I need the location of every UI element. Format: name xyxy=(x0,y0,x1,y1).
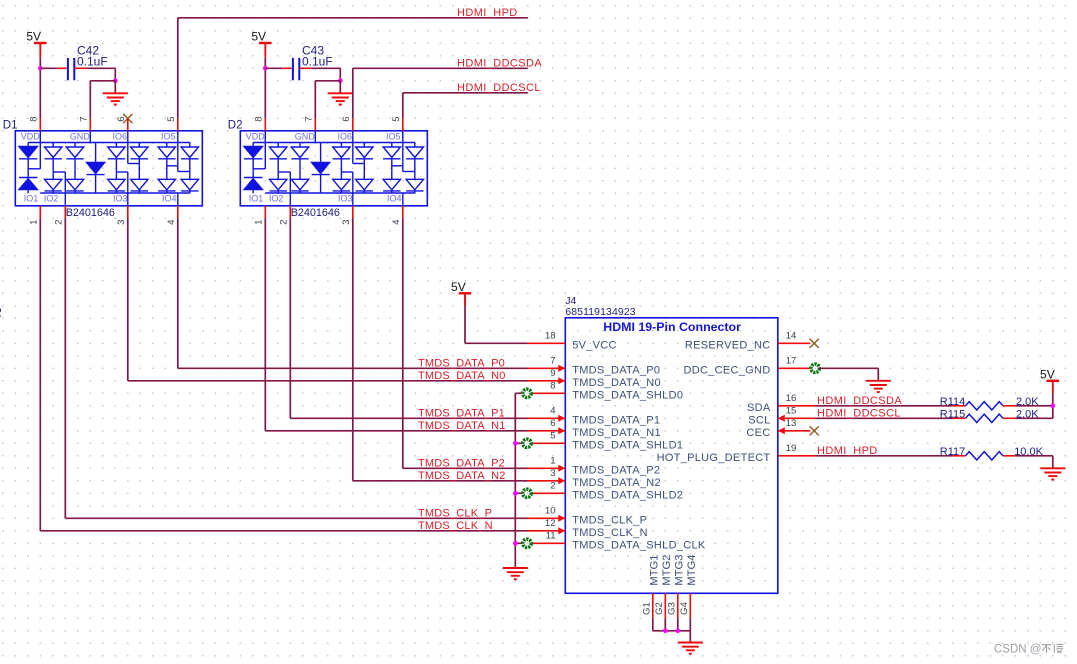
junction C43/D2 pin7/ground xyxy=(338,79,343,84)
J4 pin 12 (TMDS_CLK_N) xyxy=(528,530,566,532)
J4 pin 6 (TMDS_DATA_N1) xyxy=(528,430,566,432)
svg-text:TMDS_CLK_P: TMDS_CLK_P xyxy=(572,515,647,527)
svg-text:9: 9 xyxy=(550,368,555,379)
wire TMDS_DATA_P0 xyxy=(177,218,179,368)
svg-text:14: 14 xyxy=(786,331,797,342)
J4 pin 7 (TMDS_DATA_P0) xyxy=(528,367,566,369)
wire D1 pin 7 to junction xyxy=(90,80,115,82)
svg-text:2: 2 xyxy=(279,220,290,225)
wire TMDS_CLK_N xyxy=(39,218,41,531)
wire MTG bus xyxy=(653,630,691,632)
svg-text:5: 5 xyxy=(550,431,555,442)
wire R114 to 5V junction xyxy=(1015,405,1053,407)
svg-text:4: 4 xyxy=(550,406,556,417)
D1 pin 5 xyxy=(177,118,179,131)
svg-text:5V: 5V xyxy=(1040,367,1055,381)
svg-text:16: 16 xyxy=(786,393,797,404)
svg-text:8: 8 xyxy=(254,116,265,121)
no-ERC ring pin 5 xyxy=(523,439,531,447)
svg-text:1: 1 xyxy=(254,220,265,225)
wire TMDS_CLK_P xyxy=(64,218,66,518)
no-connect X on pin 13 xyxy=(810,426,819,435)
svg-text:HDMI_DDCSDA: HDMI_DDCSDA xyxy=(817,395,902,407)
J4 pin 4 (TMDS_DATA_P1) xyxy=(528,417,566,419)
svg-text:B2401646: B2401646 xyxy=(66,207,115,219)
wire TMDS_DATA_N0 xyxy=(127,218,129,380)
D2 pin 2 xyxy=(289,206,291,219)
svg-text:0.1uF: 0.1uF xyxy=(77,54,108,68)
J4 pin 9 (TMDS_DATA_N0) xyxy=(528,380,566,382)
resistor R114 body xyxy=(966,402,1004,410)
wire 5V to D2 pin 8 xyxy=(264,43,266,57)
svg-text:HDMI 19-Pin Connector: HDMI 19-Pin Connector xyxy=(603,320,741,334)
svg-text:IO1: IO1 xyxy=(24,194,39,204)
svg-text:IO3: IO3 xyxy=(113,194,128,204)
svg-text:IO4: IO4 xyxy=(387,194,402,204)
svg-text:D2: D2 xyxy=(228,120,243,132)
resistor R115 body xyxy=(966,414,1004,422)
svg-text:TMDS_DATA_N2: TMDS_DATA_N2 xyxy=(418,470,506,482)
svg-text:6: 6 xyxy=(550,418,555,429)
svg-text:8: 8 xyxy=(550,381,555,392)
svg-text:17: 17 xyxy=(786,356,797,367)
J4 pin 13 (CEC) xyxy=(778,427,785,434)
svg-text:TMDS_DATA_P2: TMDS_DATA_P2 xyxy=(418,458,505,470)
svg-text:685119134923: 685119134923 xyxy=(565,307,635,318)
junction MTG2 xyxy=(663,629,668,634)
J4 pin 10 (TMDS_CLK_P) xyxy=(528,517,566,519)
ground (DDC_CEC_GND) xyxy=(866,381,891,392)
J4 pin 15 (SCL) xyxy=(778,415,785,422)
capacitor C42 xyxy=(68,58,74,80)
svg-text:MTG2: MTG2 xyxy=(661,555,673,586)
J4 pin 5 (TMDS_DATA_SHLD1) xyxy=(531,442,565,444)
svg-text:R114: R114 xyxy=(940,396,965,408)
svg-text:2: 2 xyxy=(550,481,555,492)
svg-text:0.1uF: 0.1uF xyxy=(302,54,333,68)
no-ERC ring pin 17 xyxy=(811,364,819,372)
svg-text:15: 15 xyxy=(786,406,797,417)
svg-text:MTG4: MTG4 xyxy=(686,555,698,586)
svg-text:R115: R115 xyxy=(940,409,965,421)
svg-text:HDMI_DDCSCL: HDMI_DDCSCL xyxy=(457,82,541,94)
wire HDMI_DDCSDA to R114 xyxy=(815,405,953,407)
wire C43 left xyxy=(265,67,282,69)
svg-text:VDD: VDD xyxy=(21,131,41,141)
J4 pin 8 (TMDS_DATA_SHLD0) xyxy=(531,392,565,394)
svg-text:TMDS_DATA_P2: TMDS_DATA_P2 xyxy=(572,465,660,477)
D1 pin 4 xyxy=(177,206,179,219)
svg-text:IO6: IO6 xyxy=(112,131,127,141)
wire R117 to ground xyxy=(1015,455,1053,457)
J4 pin 3 (TMDS_DATA_N2) xyxy=(528,480,566,482)
svg-text:7: 7 xyxy=(304,116,315,121)
svg-text:SDA: SDA xyxy=(747,402,771,414)
connector J4 box xyxy=(565,318,778,594)
J4 pin 17 (DDC_CEC_GND) xyxy=(778,367,811,369)
svg-text:IO4: IO4 xyxy=(162,194,177,204)
D2 pin 7 xyxy=(314,118,316,131)
svg-text:G3: G3 xyxy=(666,602,677,615)
D1 pin 8 xyxy=(39,118,41,131)
junction C42/D1 pin7/ground xyxy=(113,79,118,84)
svg-text:TMDS_CLK_N: TMDS_CLK_N xyxy=(418,520,493,532)
svg-text:TMDS_DATA_N1: TMDS_DATA_N1 xyxy=(572,427,661,439)
wire HDMI_DDCSCL to R115 xyxy=(815,417,953,419)
power port 5V (D1) xyxy=(26,30,46,56)
svg-text:D1: D1 xyxy=(3,120,18,132)
wire C43 right to ground corner xyxy=(299,67,311,69)
wire HDMI_HPD to R117 xyxy=(815,455,953,457)
D2 pin 8 xyxy=(264,118,266,131)
svg-text:4: 4 xyxy=(391,219,402,225)
no-connect X on pin 14 xyxy=(810,339,819,348)
svg-text:CSDN @: CSDN @ xyxy=(994,643,1041,655)
J4 pin 16 (SDA) xyxy=(778,405,816,407)
svg-text:TMDS_DATA_N2: TMDS_DATA_N2 xyxy=(572,477,661,489)
D1 pin 7 xyxy=(89,118,91,131)
svg-text:IO6: IO6 xyxy=(337,131,352,141)
svg-text:TMDS_DATA_SHLD_CLK: TMDS_DATA_SHLD_CLK xyxy=(572,540,706,552)
D2 pin 4 xyxy=(402,206,404,219)
svg-text:7: 7 xyxy=(79,116,90,121)
junction 5V/C43 (D2) xyxy=(263,66,268,71)
capacitor C43 xyxy=(293,58,299,80)
resistor R115 xyxy=(953,417,966,419)
svg-text:TMDS_CLK_P: TMDS_CLK_P xyxy=(418,508,492,520)
svg-text:5V: 5V xyxy=(451,280,466,294)
power port 5V (J4 pin 18) xyxy=(451,280,471,306)
junction MTG3 xyxy=(676,629,681,634)
svg-text:HDMI_HPD: HDMI_HPD xyxy=(457,7,518,19)
ground stub (C43) xyxy=(339,81,341,94)
svg-text:MTG1: MTG1 xyxy=(649,555,661,586)
svg-text:TMDS_DATA_SHLD0: TMDS_DATA_SHLD0 xyxy=(572,390,683,402)
svg-text:CEC: CEC xyxy=(746,427,770,439)
junction shield bus row 12 xyxy=(513,491,518,496)
svg-text:TMDS_DATA_P1: TMDS_DATA_P1 xyxy=(418,408,505,420)
J4 pin 14 (RESERVED_NC) xyxy=(778,342,811,344)
svg-text:8: 8 xyxy=(29,116,40,121)
svg-text:TMDS_DATA_N0: TMDS_DATA_N0 xyxy=(418,370,506,382)
diode array D1 (B2401646) xyxy=(15,131,202,206)
wire TMDS_DATA_P2 xyxy=(402,218,404,468)
power port 5V (D2) xyxy=(251,30,271,56)
svg-text:B2401646: B2401646 xyxy=(291,207,340,219)
diode array D2 (B2401646) xyxy=(240,131,427,206)
J4 pin 1 (TMDS_DATA_P2) xyxy=(528,467,566,469)
D1 pin 1 xyxy=(39,206,41,219)
J4 pin 11 (TMDS_DATA_SHLD_CLK) xyxy=(531,542,565,544)
wire TMDS_DATA_N1 xyxy=(264,218,266,430)
svg-text:J4: J4 xyxy=(565,295,576,307)
svg-text:HDMI_DDCSDA: HDMI_DDCSDA xyxy=(457,57,542,69)
wire R115 up to 5V junction xyxy=(1015,417,1053,419)
svg-text:TMDS_DATA_N1: TMDS_DATA_N1 xyxy=(418,420,506,432)
J4 pin 18 (5V_VCC) xyxy=(528,342,566,344)
ground (C42) xyxy=(103,93,128,104)
svg-text:5V_VCC: 5V_VCC xyxy=(572,340,617,352)
no-ERC ring pin 2 xyxy=(523,489,531,497)
wire D2 pin 7 to junction xyxy=(315,80,340,82)
svg-text:G1: G1 xyxy=(641,602,652,615)
wire HDMI_HPD from D1 pin 5 xyxy=(177,18,179,119)
wire shield bus xyxy=(514,393,516,568)
svg-text:4: 4 xyxy=(166,219,177,225)
svg-text:HDMI_HPD: HDMI_HPD xyxy=(817,445,878,457)
svg-text:TMDS_DATA_P1: TMDS_DATA_P1 xyxy=(572,415,660,427)
junction 5V/C42 (D1) xyxy=(38,66,43,71)
wire TMDS_DATA_N2 xyxy=(352,218,354,481)
svg-text:5: 5 xyxy=(391,116,402,121)
wire HDMI_DDCSCL from D2 pin 5 xyxy=(402,93,404,119)
svg-text:G4: G4 xyxy=(679,602,690,615)
wire MTG bus down xyxy=(689,631,691,643)
svg-text:5: 5 xyxy=(166,116,177,121)
svg-text:3: 3 xyxy=(550,468,555,479)
power port 5V (pull-ups) xyxy=(1040,367,1059,393)
watermark hanzi (approximated strokes) xyxy=(1042,644,1063,653)
resistor R114 xyxy=(953,405,966,407)
D2 pin 3 xyxy=(352,206,354,219)
junction R114/R115/5V xyxy=(1051,404,1056,409)
svg-text:IO3: IO3 xyxy=(338,194,353,204)
svg-text:2: 2 xyxy=(54,220,65,225)
svg-text:7: 7 xyxy=(550,356,555,367)
svg-text:R117: R117 xyxy=(940,446,965,458)
ground (shield bus) xyxy=(503,568,528,579)
svg-text:TMDS_DATA_P0: TMDS_DATA_P0 xyxy=(418,358,505,370)
svg-text:3: 3 xyxy=(116,220,127,225)
svg-text:IO2: IO2 xyxy=(44,194,59,204)
junction shield bus row 8 xyxy=(513,441,518,446)
wire pin 17 to ground xyxy=(819,367,878,369)
wire 5V to J4 pin 18 xyxy=(464,293,466,306)
svg-text:12: 12 xyxy=(545,518,556,529)
svg-text:IO5: IO5 xyxy=(386,131,401,141)
svg-text:RESERVED_NC: RESERVED_NC xyxy=(685,340,771,352)
svg-text:G2: G2 xyxy=(654,602,665,615)
svg-text:3: 3 xyxy=(341,220,352,225)
junction shield bus row 16 xyxy=(513,541,518,546)
D1 pin 3 xyxy=(127,206,129,219)
svg-text:6: 6 xyxy=(116,116,127,121)
svg-text:19: 19 xyxy=(786,443,797,454)
svg-text:IO1: IO1 xyxy=(249,194,264,204)
wire 5V to D1 pin 8 xyxy=(39,43,41,57)
svg-text:SCL: SCL xyxy=(748,415,770,427)
svg-text:TMDS_DATA_N0: TMDS_DATA_N0 xyxy=(572,377,661,389)
ground (MTG) xyxy=(678,643,703,654)
J4 pin 19 (HOT_PLUG_DETECT) xyxy=(778,455,816,457)
resistor R117 body xyxy=(966,452,1004,460)
svg-text:11: 11 xyxy=(546,531,556,542)
wire 5V down to junction xyxy=(1052,381,1054,394)
wire C42 right to ground corner xyxy=(74,67,86,69)
ground stub (C42) xyxy=(114,81,116,94)
wire TMDS_DATA_P1 xyxy=(289,218,291,418)
D1 pin 6 xyxy=(127,118,129,131)
svg-text:10: 10 xyxy=(545,506,556,517)
resistor R117 xyxy=(953,455,966,457)
svg-text:6: 6 xyxy=(341,116,352,121)
svg-text:TMDS_DATA_P0: TMDS_DATA_P0 xyxy=(572,365,660,377)
D1 pin 2 xyxy=(64,206,66,219)
svg-text:5V: 5V xyxy=(26,30,41,44)
svg-text:DDC_CEC_GND: DDC_CEC_GND xyxy=(683,365,770,377)
svg-text:TMDS_DATA_SHLD1: TMDS_DATA_SHLD1 xyxy=(572,440,683,452)
D2 pin 6 xyxy=(352,118,354,131)
wire HDMI_DDCSDA from D2 pin 6 xyxy=(352,68,354,118)
svg-text:IO2: IO2 xyxy=(269,194,284,204)
svg-text:TMDS_CLK_N: TMDS_CLK_N xyxy=(572,527,648,539)
no-connect X on D1 pin 6 xyxy=(123,114,132,123)
no-ERC ring pin 11 xyxy=(523,539,531,547)
ground (R117) xyxy=(1040,468,1065,479)
svg-text:18: 18 xyxy=(545,331,556,342)
svg-text:1: 1 xyxy=(550,456,555,467)
svg-text:MTG3: MTG3 xyxy=(674,555,686,586)
svg-text:GND: GND xyxy=(295,131,316,141)
svg-text:HDMI_DDCSCL: HDMI_DDCSCL xyxy=(817,407,901,419)
J4 pin 2 (TMDS_DATA_SHLD2) xyxy=(531,492,565,494)
svg-text:IO5: IO5 xyxy=(161,131,176,141)
ground (C43) xyxy=(328,93,353,104)
wire C42 left xyxy=(40,67,57,69)
svg-text:GND: GND xyxy=(70,131,91,141)
D2 pin 5 xyxy=(402,118,404,131)
D2 pin 1 xyxy=(264,206,266,219)
svg-text:2: 2 xyxy=(0,306,2,320)
svg-text:TMDS_DATA_SHLD2: TMDS_DATA_SHLD2 xyxy=(572,490,683,502)
svg-text:1: 1 xyxy=(29,220,40,225)
svg-text:VDD: VDD xyxy=(246,131,266,141)
svg-text:HOT_PLUG_DETECT: HOT_PLUG_DETECT xyxy=(657,452,771,464)
no-ERC ring pin 8 xyxy=(523,389,531,397)
svg-text:5V: 5V xyxy=(251,30,266,44)
svg-text:13: 13 xyxy=(786,418,797,429)
